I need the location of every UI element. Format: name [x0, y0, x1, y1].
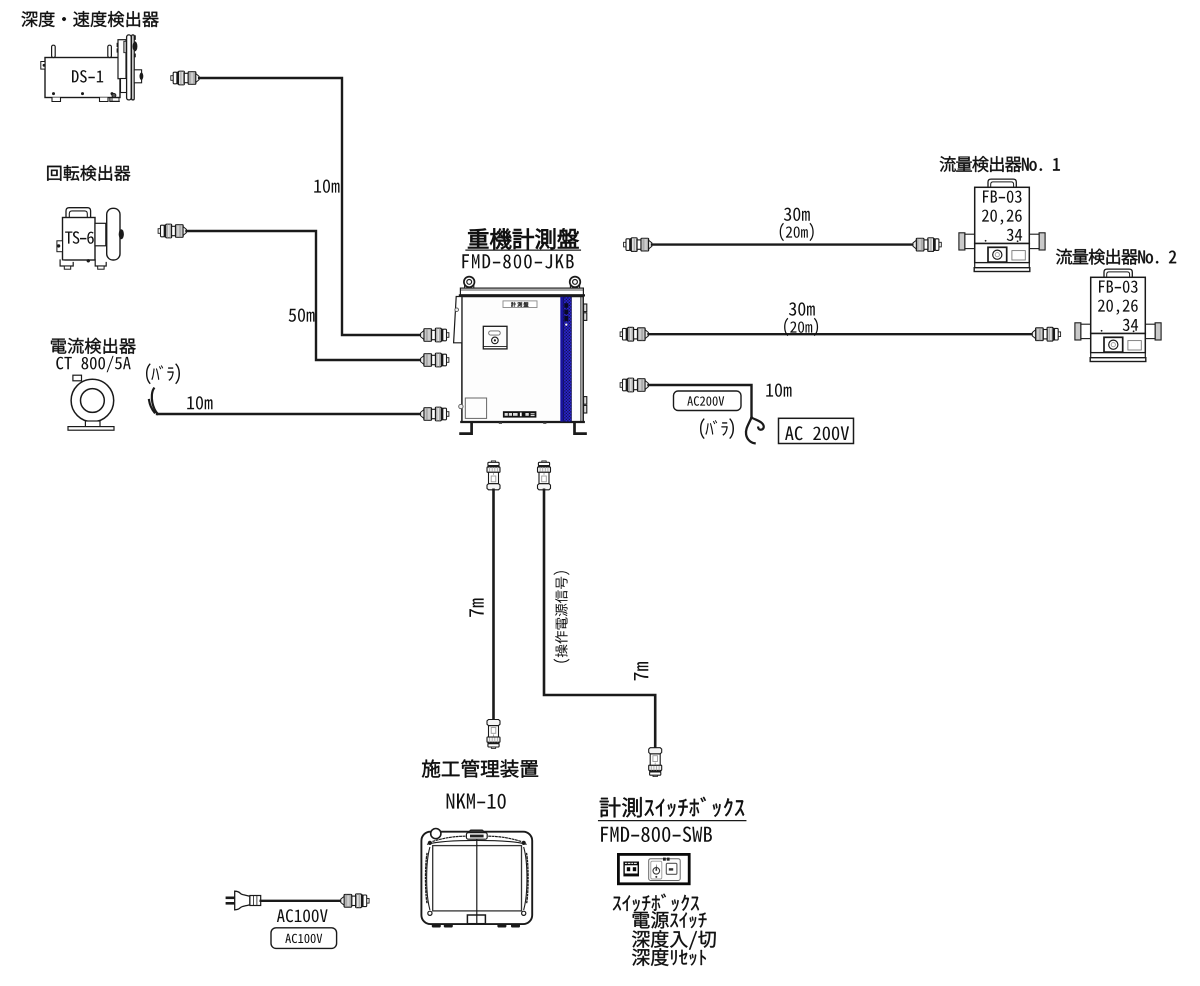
text: (bara) AC200V	[700, 418, 734, 439]
text: AC100V box text	[285, 934, 322, 943]
text: 10m DS-1 cable	[314, 180, 339, 193]
wire AC200V 10m	[649, 385, 752, 418]
text: 30m #1	[784, 208, 810, 221]
text: (20m) #2	[784, 318, 818, 336]
wire TS-6 to panel 50m	[187, 231, 421, 360]
text: 電流検出器	[51, 338, 136, 354]
connector CT cable at panel	[421, 407, 449, 421]
text: 50m TS-6 cable	[289, 309, 315, 322]
text: FB-03 #2	[1099, 281, 1138, 293]
wire 30m #2	[649, 333, 1033, 335]
panel blue stripe	[560, 297, 571, 422]
panel bottom label strip	[503, 411, 537, 417]
connector 30m #2 cable left	[620, 327, 648, 341]
text: 20,26 #2	[1098, 300, 1138, 315]
text: 電源ｽｲｯﾁ	[633, 911, 707, 928]
panel right leg	[575, 423, 586, 434]
text: (20m) #1	[780, 223, 814, 241]
connector 7m right top	[538, 461, 551, 490]
connector AC100V at NKM-10	[341, 894, 369, 908]
title underline 計測スイッチボックス	[599, 820, 746, 822]
text: 計測ｽｲｯﾁﾎﾞｯｸｽ	[600, 797, 744, 818]
switch box control panel	[649, 858, 681, 881]
text: 深度ﾘｾｯﾄ	[632, 948, 706, 966]
panel lifting rings	[464, 277, 580, 289]
text: 7m left	[469, 599, 483, 617]
wire CT to panel 10m	[157, 413, 421, 415]
panel lock box	[483, 326, 507, 349]
text: CT 800/5A	[56, 356, 130, 372]
detector DS-1 sheave bracket	[110, 40, 128, 102]
panel left leg	[461, 423, 472, 434]
text: 20,26 #1	[982, 210, 1022, 225]
switch box connector icon	[623, 862, 639, 877]
text: 重機計測盤	[468, 228, 578, 249]
connector 30m cable left	[624, 238, 652, 252]
panel under-body tabs	[499, 422, 502, 424]
text: AC200V small	[687, 396, 724, 406]
text: ｽｲｯﾁﾎﾞｯｸｽ	[613, 894, 699, 912]
AC200V pigtail	[752, 418, 764, 430]
connector DS-1 cable at panel	[421, 328, 449, 342]
title underline 重機計測盤	[466, 249, 580, 251]
AC100V rounded label box	[271, 928, 337, 949]
AC 200V box	[779, 418, 854, 443]
panel tiny name plate	[503, 301, 537, 308]
panel right hinges	[584, 304, 587, 413]
current detector CT ring	[68, 375, 114, 430]
connector DS-1 cable	[171, 71, 199, 85]
panel door edge	[454, 297, 463, 409]
text: AC 200V box text	[785, 426, 849, 440]
connector 30m #2 cable right	[1032, 327, 1060, 341]
CT pigtail wire	[152, 389, 158, 414]
panel bottom-left square	[465, 398, 486, 418]
AC100V plug	[226, 891, 261, 910]
wire DS-1 to panel 10m	[199, 78, 420, 335]
text: AC100V label	[277, 909, 328, 922]
text: 流量検出器No. 2	[1056, 249, 1176, 265]
panel body	[462, 297, 583, 422]
text: FMD-800-SWB	[601, 827, 712, 843]
connector TS-6 cable	[158, 224, 186, 238]
wire 30m #1	[652, 243, 913, 245]
connector 7m right bottom	[649, 748, 662, 777]
text: 施工管理装置	[422, 759, 538, 777]
switch box outline	[618, 854, 689, 883]
text: 10m AC200V	[766, 384, 791, 397]
text: 流量検出器No. 1	[940, 156, 1060, 172]
panel top rail	[460, 288, 584, 295]
detector DS-1 body	[41, 45, 120, 101]
text: DS-1	[72, 70, 103, 83]
connector AC200V cable	[620, 378, 648, 392]
text: tiny panel label	[511, 302, 528, 307]
text: vert signal label	[553, 571, 569, 662]
text: TS-6	[65, 231, 94, 244]
text: FMD-800-JKB	[462, 254, 573, 268]
detector DS-1 sheave discs	[127, 35, 144, 100]
connector TS-6 cable at panel	[421, 353, 449, 367]
text: 10m CT cable	[187, 396, 212, 409]
connector 30m cable right	[913, 238, 941, 252]
text: 7m right	[634, 662, 648, 680]
rotation detector TS-6	[57, 208, 124, 270]
text: FB-03 #1	[983, 191, 1022, 203]
wire 7m right	[544, 490, 655, 749]
text: 34 #1	[1007, 229, 1022, 241]
wire 7m left	[492, 490, 495, 720]
text: (bara) CT	[146, 363, 180, 384]
text: 深度入/切	[632, 930, 716, 949]
flow detector No.2 FB-03	[1075, 269, 1161, 361]
text: NKM-10	[447, 794, 506, 809]
text: 34 #2	[1123, 319, 1138, 331]
connector 7m left bottom	[487, 720, 500, 749]
text: 30m #2	[789, 302, 815, 315]
wire AC100V	[261, 900, 341, 902]
connector 7m left top	[487, 461, 500, 490]
AC200V rounded label box	[674, 391, 742, 411]
text: 深度・速度検出器	[22, 11, 159, 27]
text: 回転検出器	[47, 165, 130, 181]
